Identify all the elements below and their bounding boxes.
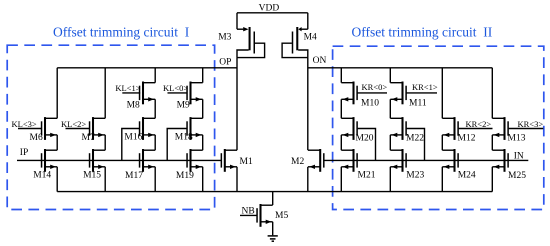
ground bbox=[268, 236, 278, 241]
wire ON rail into trimming circuit II bbox=[308, 67, 493, 69]
wire M11 source to M22 drain bbox=[389, 99, 391, 118]
svg-text:KL<0>: KL<0> bbox=[163, 83, 188, 93]
svg-text:M25: M25 bbox=[508, 171, 526, 181]
svg-text:M21: M21 bbox=[358, 171, 376, 181]
svg-text:KR<2>: KR<2> bbox=[466, 119, 492, 129]
wire M19 source to tail rail bbox=[202, 167, 204, 192]
wire M18 gate to IP line bbox=[167, 129, 186, 161]
svg-text:M3: M3 bbox=[218, 32, 231, 42]
wire KR<3> gate lead bbox=[509, 128, 544, 130]
wire M17 source to tail rail bbox=[154, 167, 156, 192]
svg-text:M15: M15 bbox=[83, 171, 101, 181]
transistor M6 bbox=[41, 117, 57, 140]
svg-text:ON: ON bbox=[313, 56, 327, 66]
svg-text:M9: M9 bbox=[177, 100, 190, 110]
svg-text:M13: M13 bbox=[508, 134, 526, 144]
wire OP rail into trimming circuit I bbox=[57, 67, 237, 69]
wire M21 source to tail rail bbox=[340, 167, 342, 192]
wire M12 source to M24 drain bbox=[441, 135, 443, 150]
wire OP rail to M6 drain bbox=[56, 68, 58, 119]
transistor M15 bbox=[89, 149, 105, 172]
wire VDD rail bbox=[237, 12, 308, 14]
wire KL<2> gate lead bbox=[66, 128, 90, 130]
transistor M25 bbox=[492, 149, 509, 172]
svg-text:M20: M20 bbox=[356, 134, 374, 144]
wire OP rail to M9 drain bbox=[202, 68, 204, 83]
svg-text:Offset trimming circuit I: Offset trimming circuit I bbox=[53, 24, 190, 39]
wire M20 source to M21 drain bbox=[340, 135, 342, 150]
svg-text:M18: M18 bbox=[175, 133, 193, 143]
wire tail rail to M5 drain bbox=[272, 192, 274, 205]
wire M25 source to tail rail bbox=[491, 167, 493, 192]
transistor M3 (PMOS diode-connected) bbox=[237, 27, 265, 58]
wire M22 gate to IN line bbox=[407, 129, 425, 161]
svg-text:M17: M17 bbox=[125, 171, 143, 181]
wire KR<0> gate lead bbox=[357, 92, 387, 94]
transistor M7 bbox=[89, 117, 105, 140]
wire ON rail to M11 drain bbox=[389, 68, 391, 83]
svg-text:IN: IN bbox=[514, 151, 524, 161]
svg-text:M7: M7 bbox=[82, 133, 95, 143]
svg-text:M16: M16 bbox=[124, 133, 142, 143]
wire KL<3> gate lead bbox=[18, 128, 41, 130]
wire ON rail to M13 drain bbox=[491, 68, 493, 119]
wire OP rail to M7 drain bbox=[104, 68, 106, 119]
transistor M13 bbox=[492, 117, 509, 140]
svg-text:KL<3>: KL<3> bbox=[12, 119, 37, 129]
svg-text:KR<0>: KR<0> bbox=[362, 82, 388, 92]
transistor M22 bbox=[390, 117, 407, 140]
wire VDD rail to M3 source bbox=[236, 13, 238, 29]
wire OP rail to M8 drain bbox=[154, 68, 156, 83]
svg-text:IP: IP bbox=[20, 148, 28, 158]
wire tail rail bbox=[57, 191, 492, 193]
wire M5 source to ground bbox=[272, 222, 274, 236]
transistor M10 bbox=[341, 82, 358, 105]
svg-text:M6: M6 bbox=[30, 133, 43, 143]
dashed box: offset trimming circuit I bbox=[7, 45, 214, 209]
transistor M12 bbox=[442, 117, 459, 140]
transistor M2 bbox=[308, 149, 325, 172]
wire ON vertical (M4 drain to M2 drain) bbox=[307, 58, 309, 151]
wire M14 source to tail rail bbox=[56, 167, 58, 192]
wire M23 source to tail rail bbox=[389, 167, 391, 192]
wire IP line bbox=[17, 159, 221, 161]
svg-text:M12: M12 bbox=[458, 134, 476, 144]
transistor M24 bbox=[442, 149, 459, 172]
wire NB gate lead bbox=[240, 214, 257, 216]
svg-text:NB: NB bbox=[242, 206, 255, 216]
wire KL<0> gate lead bbox=[168, 92, 188, 94]
svg-text:OP: OP bbox=[219, 57, 231, 67]
wire M16 gate to IP line bbox=[122, 129, 139, 161]
svg-text:M22: M22 bbox=[406, 134, 424, 144]
svg-text:Offset trimming circuit II: Offset trimming circuit II bbox=[352, 24, 493, 39]
svg-text:VDD: VDD bbox=[259, 3, 280, 13]
transistor M16 bbox=[139, 117, 155, 140]
svg-text:M14: M14 bbox=[33, 171, 51, 181]
wire KL<1> gate lead bbox=[122, 92, 140, 94]
svg-text:M2: M2 bbox=[291, 157, 304, 167]
wire M1 source to tail rail bbox=[236, 167, 238, 192]
transistor M20 bbox=[341, 117, 358, 140]
transistor M5 bbox=[256, 204, 272, 227]
wire M15 source to tail rail bbox=[104, 167, 106, 192]
wire OP vertical (M3 drain to M1 drain) bbox=[236, 58, 238, 151]
wire M16 source to M17 drain bbox=[154, 135, 156, 150]
wire M13 source to M25 drain bbox=[491, 135, 493, 150]
wire VDD rail to M4 source bbox=[307, 13, 309, 29]
transistor M19 bbox=[186, 149, 202, 172]
svg-text:KL<1>: KL<1> bbox=[115, 83, 140, 93]
wire M9 source to M18 drain bbox=[202, 99, 204, 118]
transistor M11 bbox=[390, 82, 407, 105]
svg-text:KL<2>: KL<2> bbox=[61, 119, 86, 129]
transistor M9 bbox=[186, 82, 202, 105]
svg-text:KR<1>: KR<1> bbox=[412, 82, 438, 92]
wire M6 source to M14 drain bbox=[56, 135, 58, 150]
wire ON rail to M10 drain bbox=[340, 68, 342, 83]
svg-text:M1: M1 bbox=[240, 157, 253, 167]
svg-text:KR<3>: KR<3> bbox=[518, 119, 544, 129]
wire M22 source to M23 drain bbox=[389, 135, 391, 150]
transistor M8 bbox=[139, 82, 155, 105]
svg-text:M8: M8 bbox=[127, 100, 140, 110]
wire M20 gate to IN line bbox=[358, 129, 376, 161]
transistor M4 (PMOS diode-connected) bbox=[282, 27, 308, 58]
wire M24 source to tail rail bbox=[441, 167, 443, 192]
wire ON rail to M12 drain bbox=[441, 68, 443, 119]
svg-text:M10: M10 bbox=[361, 99, 379, 109]
svg-text:M5: M5 bbox=[275, 211, 288, 221]
svg-text:M23: M23 bbox=[406, 171, 424, 181]
wire M7 source to M15 drain bbox=[104, 135, 106, 150]
dashed box: offset trimming circuit II bbox=[333, 46, 544, 209]
transistor M21 bbox=[341, 149, 358, 172]
wire M2 source to tail rail bbox=[307, 167, 309, 192]
svg-text:M24: M24 bbox=[458, 171, 476, 181]
transistor M23 bbox=[390, 149, 407, 172]
transistor M17 bbox=[139, 149, 155, 172]
wire M10 source to M20 drain bbox=[340, 99, 342, 118]
wire KR<2> gate lead bbox=[459, 128, 493, 130]
transistor M14 bbox=[41, 149, 57, 172]
wire IN line bbox=[324, 159, 528, 161]
svg-text:M19: M19 bbox=[176, 171, 194, 181]
wire M18 source to M19 drain bbox=[202, 135, 204, 150]
wire M8 source to M16 drain bbox=[154, 99, 156, 118]
svg-text:M4: M4 bbox=[304, 33, 317, 43]
transistor M1 bbox=[221, 149, 237, 172]
svg-text:M11: M11 bbox=[409, 99, 427, 109]
wire KR<1> gate lead bbox=[406, 92, 437, 94]
transistor M18 bbox=[186, 117, 202, 140]
